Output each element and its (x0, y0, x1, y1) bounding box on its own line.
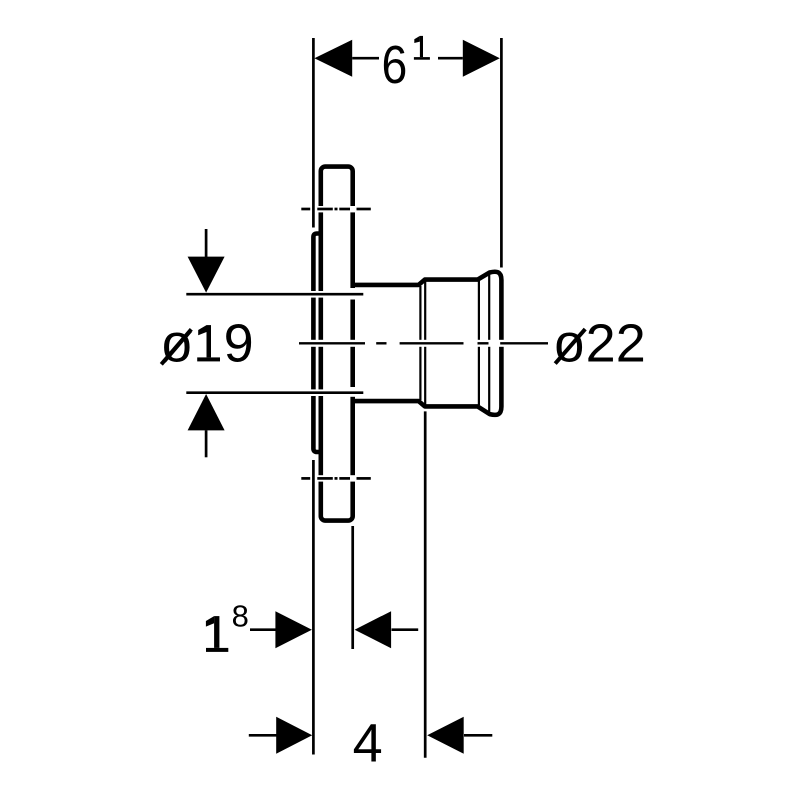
dimension tail above diameter 19 arrow (205, 229, 208, 257)
socket mouth chamfer edge line 1 (419, 286, 421, 400)
press bead inner edge line 1 (478, 281, 480, 405)
extension line below flange front face for dimension 1_8 (351, 526, 354, 649)
svg-text:8: 8 (232, 598, 249, 633)
press bead inner edge line 2 (488, 274, 490, 412)
dimension line upper bound of diameter 19 (186, 293, 363, 296)
svg-text:4: 4 (353, 714, 383, 774)
lower screw hole centreline mark (301, 477, 371, 480)
dimension text diameter 19: digit 1 (custom footed glyph) (197, 325, 220, 361)
centreline (dash-dot axis) (299, 342, 548, 344)
upper screw hole centreline mark (301, 208, 371, 211)
line break gaps on flange and boss edges (310, 206, 357, 482)
dimension line 6_1 left segment (352, 57, 379, 60)
extension line below boss face for dimensions 1_8 and 4 (312, 460, 315, 755)
arrowhead 1_8 left (275, 611, 312, 648)
svg-text:ø22: ø22 (553, 314, 646, 374)
flange disc (321, 167, 353, 521)
arrowhead diameter 19 top (188, 257, 225, 293)
arrowhead 4 left (276, 717, 312, 754)
socket mouth chamfer edge line 2 (424, 282, 426, 405)
superscript digit 1 of 6_1 (custom footed glyph) (414, 36, 430, 60)
arrowhead 1_8 right (355, 611, 392, 648)
svg-text:6: 6 (382, 35, 408, 95)
dimension line 1_8 left tail (250, 628, 276, 631)
arrowhead 6_1 left (314, 40, 352, 77)
flange back boss (313, 234, 321, 453)
slash stroke of o-slash 22 (555, 329, 585, 364)
dimension line 4 right tail (464, 734, 492, 737)
arrowhead diameter 19 bottom (188, 394, 225, 430)
arrowhead 6_1 right (463, 40, 500, 77)
dimension line 6_1 right segment (438, 57, 463, 60)
extension line right of dimension 6_1 (500, 38, 503, 268)
svg-text:9: 9 (224, 313, 254, 373)
dimension tail below diameter 19 arrow (205, 430, 208, 457)
dimension line lower bound of diameter 19 (186, 391, 363, 394)
dimension text 1_8: digit 1 (custom footed glyph) (206, 616, 228, 652)
dimension line 4 left tail (249, 734, 277, 737)
line break gaps on socket verticals at centreline (419, 340, 504, 347)
press fitting body outline (stub tube, socket, press bead lip) (353, 272, 502, 415)
slash stroke of o-slash 19 (161, 329, 191, 364)
dimension line 1_8 right tail (392, 628, 419, 631)
extension line below socket mouth for dimension 4 (424, 411, 427, 757)
extension line left of dimension 6_1 (312, 38, 315, 228)
arrowhead 4 right (427, 717, 464, 754)
